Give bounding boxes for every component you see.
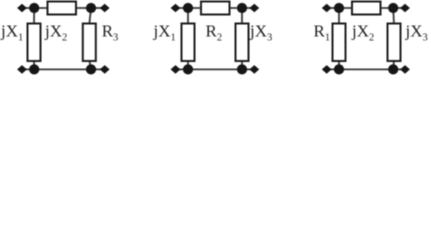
- svg-text:jX3: jX3: [405, 21, 428, 43]
- svg-text:jX1: jX1: [153, 21, 176, 43]
- svg-text:jX1: jX1: [0, 21, 23, 43]
- svg-text:jX2: jX2: [44, 21, 67, 43]
- svg-text:R2: R2: [206, 21, 223, 43]
- svg-text:R3: R3: [102, 21, 119, 43]
- svg-text:R1: R1: [314, 21, 331, 43]
- svg-text:jX2: jX2: [351, 21, 374, 43]
- svg-text:jX3: jX3: [249, 21, 272, 43]
